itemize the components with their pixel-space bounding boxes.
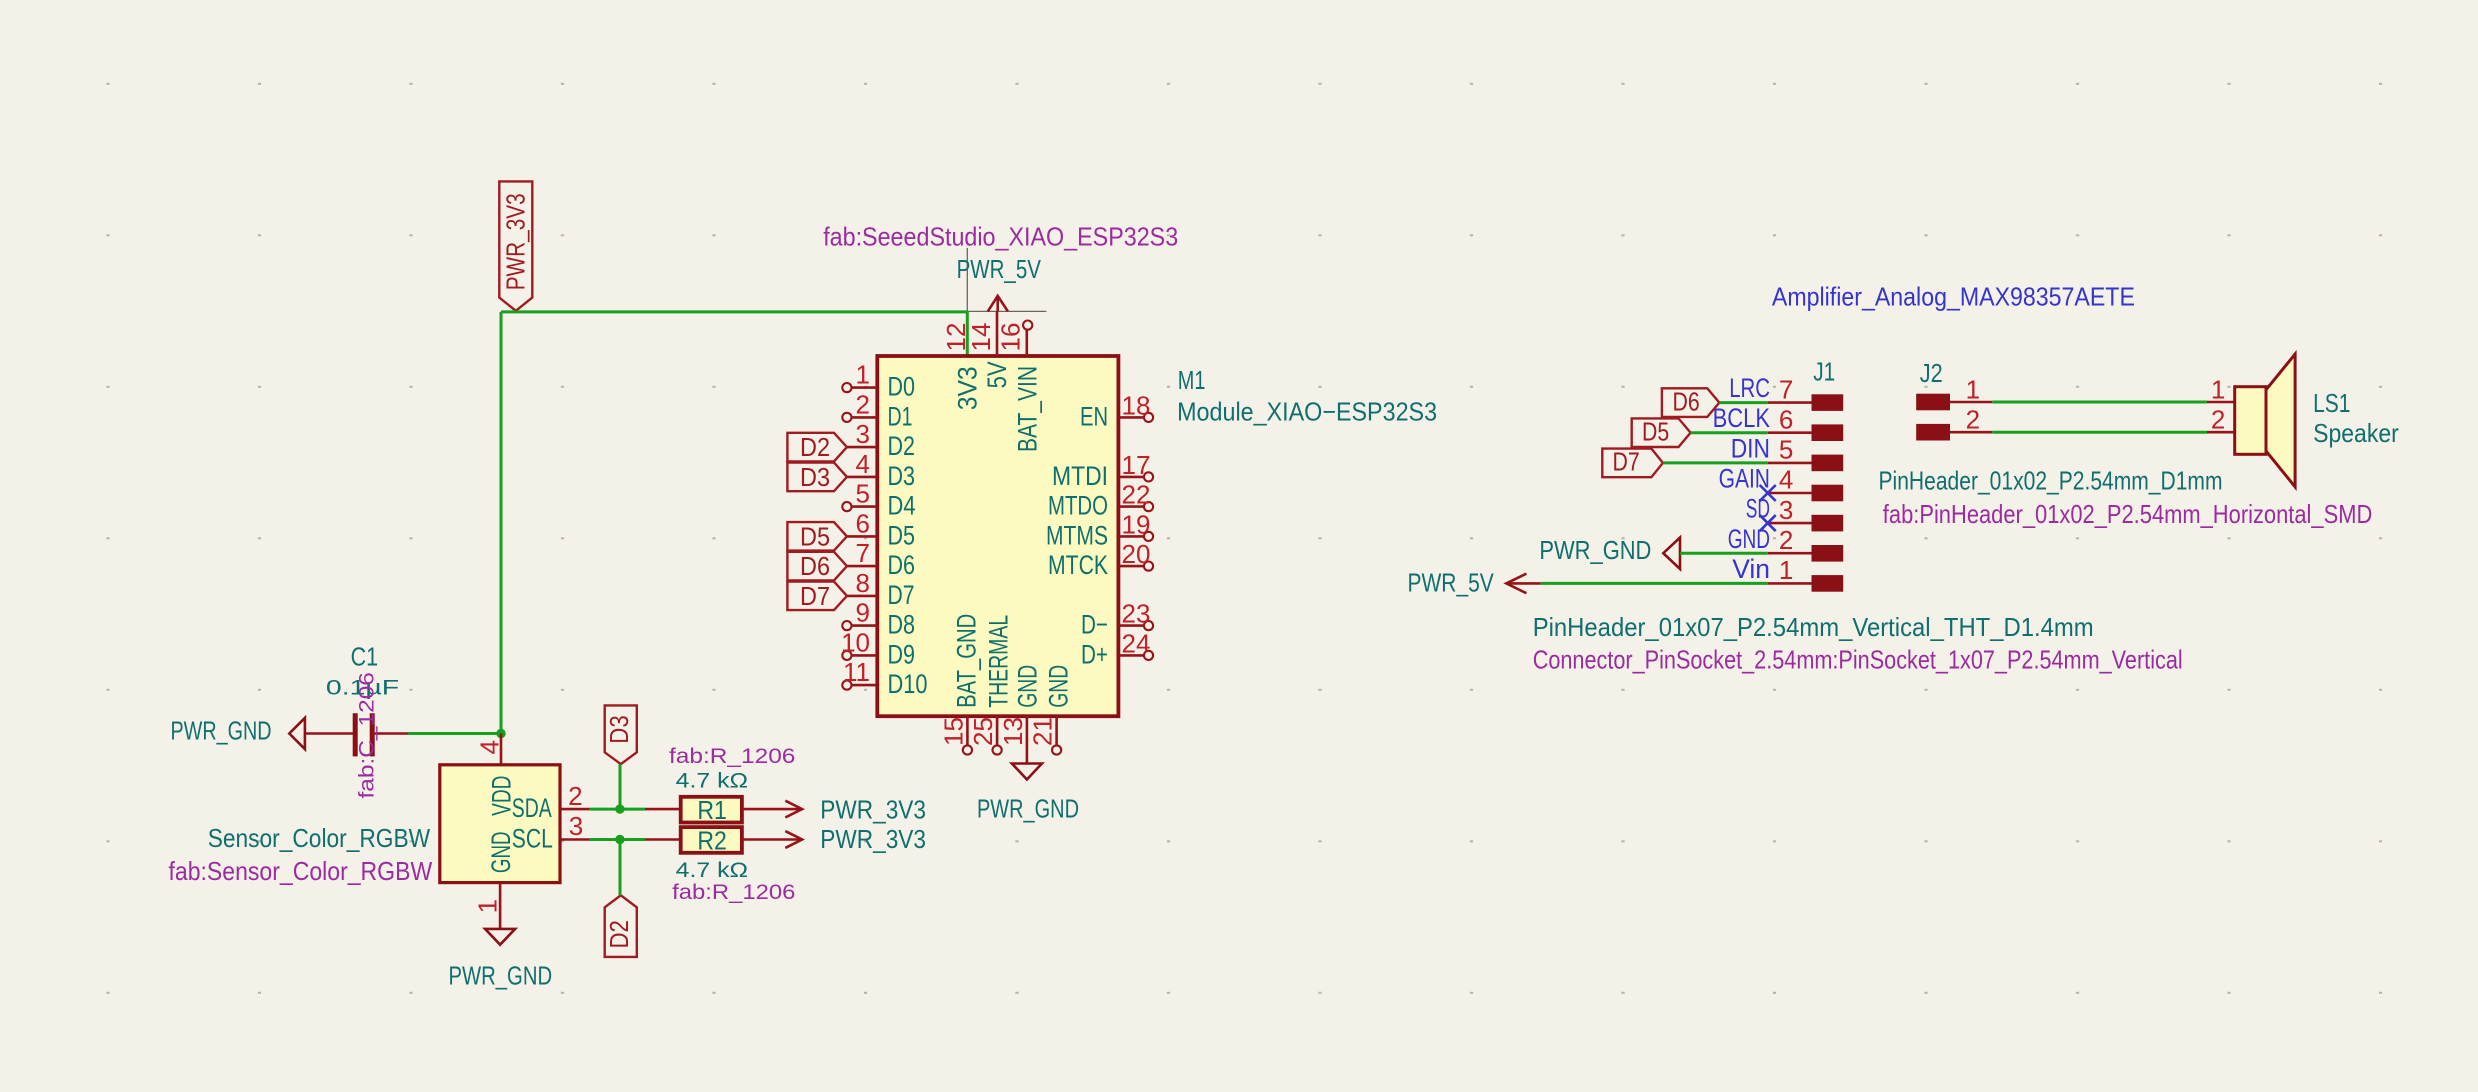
svg-text:14: 14 xyxy=(966,323,996,352)
svg-text:Sensor_Color_RGBW: Sensor_Color_RGBW xyxy=(208,823,431,853)
svg-text:5V: 5V xyxy=(982,361,1012,388)
svg-text:BAT_GND: BAT_GND xyxy=(951,614,981,708)
svg-text:BCLK: BCLK xyxy=(1713,403,1770,433)
wire D5 to BCLK xyxy=(1691,431,1768,434)
svg-text:PWR_GND: PWR_GND xyxy=(977,793,1079,823)
junction SCL node xyxy=(615,835,624,844)
svg-text:2: 2 xyxy=(568,781,582,811)
M1 pin 3 D2 xyxy=(847,446,877,449)
M1 pin 20 MTCK xyxy=(1118,565,1143,568)
global label D2 (at M1) xyxy=(787,433,847,462)
svg-text:fab:SeeedStudio_XIAO_ESP32S3: fab:SeeedStudio_XIAO_ESP32S3 xyxy=(823,222,1178,252)
svg-text:MTDO: MTDO xyxy=(1048,491,1108,521)
svg-text:24: 24 xyxy=(1122,628,1151,658)
svg-text:10: 10 xyxy=(841,627,870,657)
wire SCL node to D2 xyxy=(619,840,622,896)
M1 pin 13 GND xyxy=(1026,716,1029,763)
wire D6 to LRC xyxy=(1719,401,1767,404)
svg-text:2: 2 xyxy=(856,389,870,419)
svg-text:D−: D− xyxy=(1081,610,1108,640)
svg-text:19: 19 xyxy=(1122,509,1151,539)
svg-text:fab:PinHeader_01x02_P2.54mm_Ho: fab:PinHeader_01x02_P2.54mm_Horizontal_S… xyxy=(1883,499,2373,529)
svg-text:D6: D6 xyxy=(888,550,916,580)
svg-text:D7: D7 xyxy=(888,580,915,610)
svg-text:16: 16 xyxy=(996,323,1026,352)
svg-text:3V3: 3V3 xyxy=(952,366,982,410)
svg-text:EN: EN xyxy=(1080,401,1108,431)
speaker pin 2 xyxy=(2207,431,2235,434)
svg-text:MTDI: MTDI xyxy=(1052,461,1108,491)
svg-text:PinHeader_01x02_P2.54mm_D1mm: PinHeader_01x02_P2.54mm_D1mm xyxy=(1879,465,2223,495)
speaker pin 1 xyxy=(2207,401,2235,404)
power flag PWR_3V3 (global label, top left) xyxy=(499,181,532,310)
svg-text:D1: D1 xyxy=(888,401,913,431)
M1 pin 25 THERMAL xyxy=(996,716,999,745)
J1 pin 4 pad xyxy=(1812,485,1844,502)
sensor pin 4 VDD xyxy=(500,734,503,765)
svg-text:D3: D3 xyxy=(604,715,634,743)
M1 pin 11 D10 xyxy=(852,684,877,687)
global label D7 (at J1 DIN) xyxy=(1602,449,1663,478)
M1 pin 14 5V xyxy=(996,311,999,356)
svg-text:D3: D3 xyxy=(800,462,830,492)
svg-text:GND: GND xyxy=(1043,665,1073,708)
svg-text:7: 7 xyxy=(856,538,870,568)
svg-text:Connector_PinSocket_2.54mm:Pin: Connector_PinSocket_2.54mm:PinSocket_1x0… xyxy=(1533,645,2183,675)
svg-text:1: 1 xyxy=(2211,375,2225,405)
M1 pin 4 D3 xyxy=(847,476,877,479)
ground symbol under sensor xyxy=(485,929,515,945)
svg-text:D7: D7 xyxy=(800,581,830,611)
svg-text:PWR_3V3: PWR_3V3 xyxy=(820,824,926,854)
svg-text:8: 8 xyxy=(856,568,870,598)
M1 pin 7 D6 xyxy=(847,565,877,568)
resistor R2 4.7k xyxy=(645,838,681,841)
J1 pin 3 pad xyxy=(1812,515,1844,532)
M1 pin 8 D7 xyxy=(847,595,877,598)
global label D7 (at M1) xyxy=(787,582,847,611)
svg-text:fab:Sensor_Color_RGBW: fab:Sensor_Color_RGBW xyxy=(169,856,433,886)
speaker LS1 body xyxy=(2266,354,2295,487)
svg-text:7: 7 xyxy=(1779,374,1793,404)
svg-text:C1: C1 xyxy=(351,642,379,672)
global label D2 (near sensor) xyxy=(605,895,637,957)
global label D3 (near sensor) xyxy=(605,705,637,764)
svg-text:R2: R2 xyxy=(697,826,727,856)
M1 pin 9 D8 xyxy=(852,624,877,627)
M1 pin 19 MTMS xyxy=(1118,535,1143,538)
sensor pin 3 SCL xyxy=(561,838,590,841)
svg-text:3: 3 xyxy=(569,811,583,841)
svg-text:D9: D9 xyxy=(888,639,916,669)
svg-text:D5: D5 xyxy=(888,520,916,550)
svg-text:D3: D3 xyxy=(888,461,916,491)
svg-text:R1: R1 xyxy=(697,795,727,825)
M1 pin 6 D5 xyxy=(847,535,877,538)
J1 pin 5 pad xyxy=(1812,455,1844,472)
svg-text:J2: J2 xyxy=(1920,358,1943,388)
svg-text:D10: D10 xyxy=(888,669,928,699)
wire SDA to R1 xyxy=(590,808,645,811)
svg-text:Speaker: Speaker xyxy=(2313,418,2399,448)
svg-text:PWR_5V: PWR_5V xyxy=(957,254,1042,284)
svg-text:13: 13 xyxy=(998,717,1028,746)
svg-text:PWR_GND: PWR_GND xyxy=(1539,535,1651,565)
sensor pin 1 GND xyxy=(499,883,502,929)
svg-text:6: 6 xyxy=(1779,404,1793,434)
global label D5 (at M1) xyxy=(787,522,847,551)
svg-text:PWR_GND: PWR_GND xyxy=(449,960,553,990)
M1 pin 1 D0 xyxy=(852,386,877,389)
wire SCL to R2 xyxy=(590,838,645,841)
power symbol PWR_5V (at J1 Vin pin) xyxy=(1506,574,1526,594)
M1 pin 24 D+ xyxy=(1118,654,1143,657)
power symbol PWR_GND (at J1 GND pin) xyxy=(1663,538,1680,570)
svg-text:3: 3 xyxy=(1779,495,1793,525)
power symbol PWR_3V3 (right of R2) xyxy=(785,831,802,848)
power symbol PWR_3V3 (right of R1) xyxy=(785,801,802,818)
wire 3V3 pin drop xyxy=(966,312,969,356)
sensor pin 2 SDA xyxy=(561,808,590,811)
svg-text:THERMAL: THERMAL xyxy=(984,615,1014,708)
svg-text:GND: GND xyxy=(1012,665,1042,708)
svg-text:3: 3 xyxy=(856,419,870,449)
svg-text:1: 1 xyxy=(473,899,503,913)
wire PWR_5V to J1 Vin xyxy=(1541,582,1768,585)
sensor U Sensor_Color_RGBW body xyxy=(440,765,560,883)
svg-text:PWR_GND: PWR_GND xyxy=(171,715,272,745)
svg-text:1: 1 xyxy=(856,360,870,390)
svg-text:5: 5 xyxy=(856,479,870,509)
svg-text:D8: D8 xyxy=(888,610,916,640)
ground symbol under M1 xyxy=(1012,764,1042,780)
svg-text:fab:R_1206: fab:R_1206 xyxy=(669,745,795,768)
module M1 Module_XIAO-ESP32S3 body xyxy=(877,356,1118,716)
svg-text:MTCK: MTCK xyxy=(1048,550,1108,580)
resistor R1 4.7k xyxy=(645,808,680,811)
wire PWR_GND to J1 GND xyxy=(1680,552,1768,555)
wire J2 pin 2 to speaker xyxy=(1992,431,2207,434)
svg-text:18: 18 xyxy=(1122,390,1151,420)
svg-text:1: 1 xyxy=(1966,375,1980,405)
svg-text:D7: D7 xyxy=(1613,447,1640,477)
M1 pin 16 BAT_VIN xyxy=(1026,330,1029,356)
node M1 anchor crosshair xyxy=(966,248,968,367)
svg-text:21: 21 xyxy=(1028,717,1058,746)
svg-text:D2: D2 xyxy=(604,920,634,948)
wire J2 pin 1 to speaker xyxy=(1992,401,2207,404)
svg-text:25: 25 xyxy=(968,717,998,746)
power symbol PWR_5V (above M1) xyxy=(988,296,1008,312)
svg-text:LRC: LRC xyxy=(1729,373,1770,403)
J1 pin 6 pad xyxy=(1812,424,1844,441)
J1 pin 1 pad xyxy=(1812,575,1844,592)
J1 pin 7 pad xyxy=(1812,394,1844,411)
svg-text:SDA: SDA xyxy=(512,793,552,823)
wire PWR_3V3 horizontal to 3V3 pin xyxy=(501,310,967,313)
J2 pin 2 pad xyxy=(1916,424,1950,441)
svg-text:4.7 kΩ: 4.7 kΩ xyxy=(676,770,748,793)
svg-text:BAT_VIN: BAT_VIN xyxy=(1013,366,1043,452)
svg-text:11: 11 xyxy=(843,657,870,687)
svg-text:PWR_3V3: PWR_3V3 xyxy=(820,795,926,825)
global label D5 (at J1 BCLK) xyxy=(1632,418,1691,447)
svg-text:4: 4 xyxy=(474,740,504,754)
power symbol PWR_GND (left of C1) xyxy=(289,718,305,749)
svg-text:D2: D2 xyxy=(888,431,916,461)
wire D3 to SDA node xyxy=(619,764,622,809)
svg-text:4.7 kΩ: 4.7 kΩ xyxy=(676,859,748,882)
svg-text:D6: D6 xyxy=(1673,386,1700,416)
no-connect on GAIN xyxy=(1760,485,1776,501)
J1 pin 2 pad xyxy=(1812,545,1844,562)
no-connect on SD xyxy=(1760,515,1776,531)
svg-text:fab:R_1206: fab:R_1206 xyxy=(672,881,795,904)
M1 pin 23 D− xyxy=(1118,624,1143,627)
svg-text:Amplifier_Analog_MAX98357AETE: Amplifier_Analog_MAX98357AETE xyxy=(1772,282,2135,312)
M1 pin 18 EN xyxy=(1118,416,1143,419)
svg-text:SCL: SCL xyxy=(512,824,553,854)
svg-text:J1: J1 xyxy=(1813,357,1835,387)
svg-text:2: 2 xyxy=(1966,405,1980,435)
svg-text:PWR_5V: PWR_5V xyxy=(1408,568,1495,598)
svg-text:2: 2 xyxy=(1779,525,1793,555)
wire PWR_3V3 vertical down to VDD node xyxy=(500,312,503,734)
global label D6 (at M1) xyxy=(787,552,847,581)
svg-text:fab:C_1206: fab:C_1206 xyxy=(356,672,379,798)
svg-text:15: 15 xyxy=(938,717,968,746)
svg-text:LS1: LS1 xyxy=(2313,388,2350,418)
svg-text:4: 4 xyxy=(1779,465,1793,495)
M1 pin 21 GND xyxy=(1055,716,1058,745)
global label D3 (at M1) xyxy=(787,463,847,492)
svg-text:DIN: DIN xyxy=(1731,433,1770,463)
J2 pin 1 pad xyxy=(1916,394,1950,411)
M1 pin 5 D4 xyxy=(852,505,877,508)
svg-text:PWR_3V3: PWR_3V3 xyxy=(500,193,530,290)
svg-text:D2: D2 xyxy=(800,432,830,462)
svg-text:6: 6 xyxy=(856,508,870,538)
svg-text:Vin: Vin xyxy=(1732,554,1770,584)
svg-text:PinHeader_01x07_P2.54mm_Vertic: PinHeader_01x07_P2.54mm_Vertical_THT_D1.… xyxy=(1533,612,2094,642)
junction VDD node xyxy=(496,729,505,738)
svg-text:17: 17 xyxy=(1122,450,1151,480)
svg-text:SD: SD xyxy=(1746,494,1770,524)
svg-text:D6: D6 xyxy=(800,551,830,581)
global label D6 (at J1 LRC) xyxy=(1662,388,1719,417)
wire C1 to VDD node xyxy=(408,732,501,735)
svg-text:9: 9 xyxy=(856,598,870,628)
junction SDA node xyxy=(615,804,624,813)
capacitor C1 0.1uF xyxy=(353,713,358,756)
svg-text:2: 2 xyxy=(2211,405,2225,435)
svg-text:D5: D5 xyxy=(1642,417,1669,447)
M1 pin 10 D9 xyxy=(852,654,877,657)
wire D7 to DIN xyxy=(1663,461,1768,464)
svg-text:4: 4 xyxy=(856,449,870,479)
svg-text:23: 23 xyxy=(1122,599,1151,629)
M1 pin 2 D1 xyxy=(852,416,877,419)
svg-text:20: 20 xyxy=(1122,539,1151,569)
svg-text:D0: D0 xyxy=(888,372,916,402)
M1 pin 17 MTDI xyxy=(1118,476,1143,479)
svg-text:5: 5 xyxy=(1779,435,1793,465)
svg-text:MTMS: MTMS xyxy=(1046,520,1108,550)
svg-text:D4: D4 xyxy=(888,491,916,521)
M1 pin 22 MTDO xyxy=(1118,505,1143,508)
svg-text:Module_XIAO−ESP32S3: Module_XIAO−ESP32S3 xyxy=(1177,397,1437,427)
svg-text:1: 1 xyxy=(1779,555,1793,585)
svg-text:22: 22 xyxy=(1122,480,1151,510)
M1 pin 15 BAT_GND xyxy=(966,716,969,745)
svg-text:M1: M1 xyxy=(1178,365,1206,395)
svg-text:D5: D5 xyxy=(800,521,830,551)
svg-text:D+: D+ xyxy=(1081,639,1108,669)
